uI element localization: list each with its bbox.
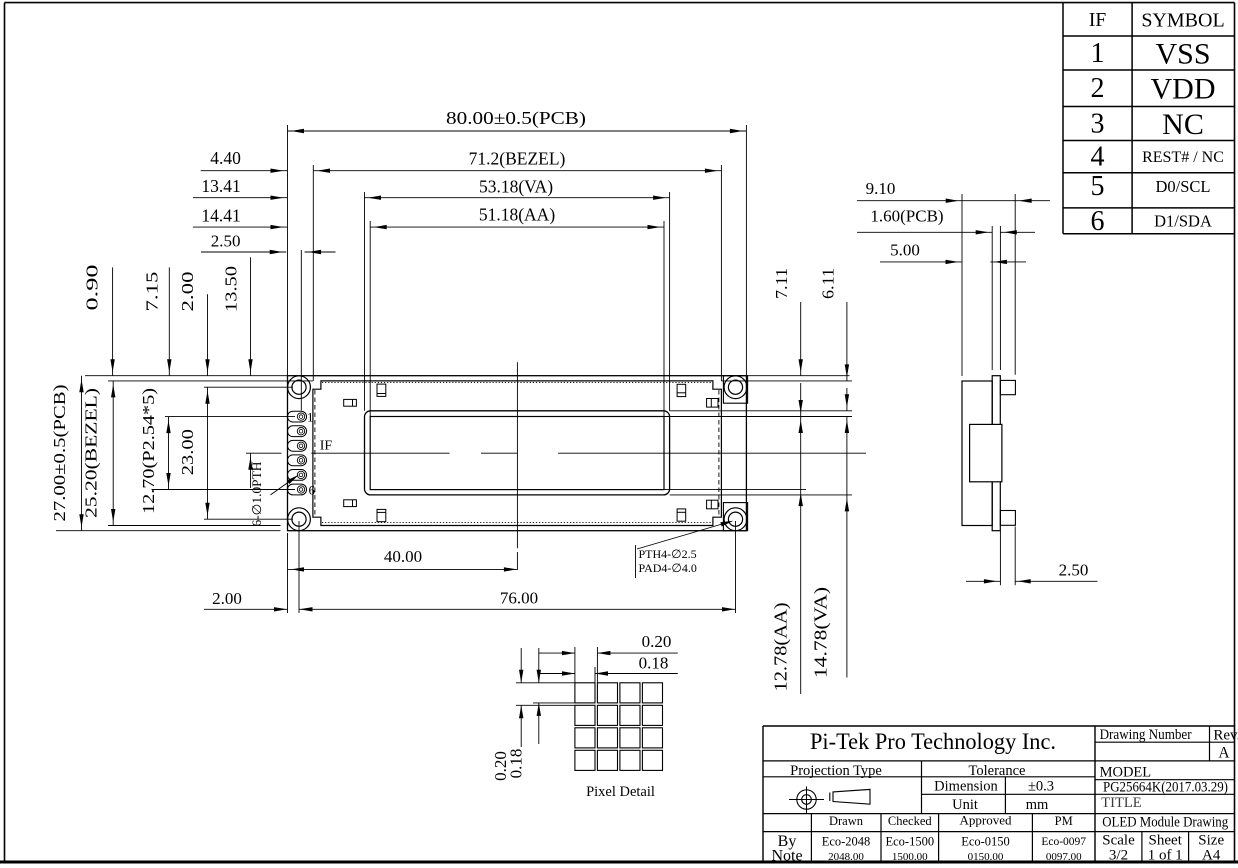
dim 51.18(AA): [370, 205, 664, 230]
tolerance value: [1028, 779, 1054, 795]
svg-text:Dimension: Dimension: [934, 779, 998, 795]
pin table header IF: [1089, 10, 1106, 31]
svg-text:2.00: 2.00: [178, 272, 197, 312]
svg-text:51.18(AA): 51.18(AA): [479, 205, 555, 225]
pin table row 6 D1/SDA: [1091, 206, 1212, 237]
label PM: [1055, 814, 1073, 828]
by Checked value: [885, 835, 934, 849]
label Scale: [1102, 833, 1135, 849]
pixel dim 0.18 horizontal: [539, 654, 678, 676]
pin table header SYMBOL: [1141, 10, 1224, 32]
dim 12.78(AA): [771, 383, 803, 694]
ext line PCB top left: [85, 375, 288, 377]
side ext line front top: [961, 194, 963, 376]
svg-text:12.78(AA): 12.78(AA): [771, 602, 791, 691]
svg-text:13.50: 13.50: [222, 266, 241, 312]
pin table row 2 VDD: [1091, 73, 1216, 106]
svg-text:PAD4-∅4.0: PAD4-∅4.0: [639, 561, 697, 575]
svg-text:2: 2: [1091, 73, 1105, 104]
svg-text:VDD: VDD: [1151, 73, 1216, 106]
pin table row 1 VSS: [1091, 38, 1211, 71]
dim 14.41: [193, 205, 287, 229]
ext line PCB top right: [746, 375, 849, 377]
model value: [1103, 780, 1228, 796]
VA outline (53.18x14.78): [365, 411, 670, 495]
component C8 (bottom-right): [707, 500, 718, 509]
ext line PCB left below: [287, 533, 289, 613]
size value: [1202, 848, 1221, 864]
ext line bezel top left: [108, 380, 313, 382]
dim 25.20(BEZEL): [81, 381, 115, 526]
ext line VA bottom right: [670, 494, 852, 496]
svg-text:14.78(VA): 14.78(VA): [811, 587, 831, 678]
svg-text:2.50: 2.50: [1059, 561, 1089, 580]
dim 71.2(BEZEL): [313, 149, 721, 173]
svg-text:MODEL: MODEL: [1100, 765, 1152, 781]
ext line pin1 row: [165, 416, 295, 418]
label Rev.: [1213, 728, 1238, 744]
pin table row 3 NC: [1091, 108, 1204, 141]
svg-text:Rev.: Rev.: [1213, 728, 1238, 744]
svg-text:14.41: 14.41: [201, 205, 240, 225]
dim 23.00: [178, 387, 210, 519]
pixel ext v2: [596, 647, 598, 683]
ext line AA top right: [664, 416, 852, 418]
label Drawn: [829, 814, 864, 828]
side view top standoff pad: [1000, 380, 1015, 394]
svg-text:Pixel Detail: Pixel Detail: [586, 784, 655, 800]
svg-text:53.18(VA): 53.18(VA): [479, 177, 553, 197]
svg-text:SYMBOL: SYMBOL: [1141, 10, 1224, 32]
svg-text:7.11: 7.11: [772, 268, 791, 299]
dim 7.11: [772, 268, 803, 376]
svg-text:6: 6: [308, 483, 315, 498]
pin table row 4 REST# / NC: [1091, 142, 1224, 173]
interface pins 1-6 (pads with 1.0 PTH): [288, 411, 307, 495]
note PTH4-2.5 PAD4-4.0 text: [639, 547, 697, 575]
mounting hole top-left (PTH 2.5 / PAD 4.0): [288, 376, 311, 399]
svg-text:1500.00: 1500.00: [892, 851, 928, 863]
component C2 (top-left vertical): [377, 384, 386, 396]
svg-text:A: A: [1218, 745, 1230, 762]
svg-text:PG25664K(2017.03.29): PG25664K(2017.03.29): [1103, 780, 1228, 796]
note PTH4/PAD4 leader: [636, 521, 734, 578]
svg-text:Sheet: Sheet: [1149, 833, 1183, 849]
sheet value: [1148, 848, 1183, 864]
svg-text:40.00: 40.00: [384, 547, 422, 566]
pixel ext v3: [594, 667, 596, 683]
svg-text:4: 4: [1091, 142, 1105, 173]
svg-text:Scale: Scale: [1102, 833, 1135, 849]
note Approved value: [968, 851, 1004, 863]
scale value: [1109, 848, 1128, 864]
note Checked value: [892, 851, 928, 863]
svg-text:76.00: 76.00: [500, 589, 538, 608]
dim 13.41: [193, 176, 287, 200]
label Note: [771, 848, 802, 865]
note 6-PTH leader: [271, 475, 299, 495]
pixel ext h3: [533, 702, 575, 704]
pixel ext h1: [516, 682, 575, 684]
dim 4.40: [201, 148, 287, 173]
dim 53.18(VA): [365, 177, 670, 200]
svg-text:6-∅1.0PTH: 6-∅1.0PTH: [250, 462, 264, 527]
dim 80.00±0.5(PCB): [288, 108, 747, 133]
svg-text:1.60(PCB): 1.60(PCB): [870, 207, 943, 226]
svg-text:Eco-1500: Eco-1500: [885, 835, 934, 849]
svg-text:1 of 1: 1 of 1: [1148, 848, 1183, 864]
ext line hole row bottom: [204, 518, 293, 520]
ext line PCB right vertical top: [745, 125, 747, 376]
svg-text:Checked: Checked: [888, 814, 932, 828]
svg-text:OLED Module Drawing: OLED Module Drawing: [1102, 815, 1228, 831]
svg-text:VSS: VSS: [1155, 38, 1210, 71]
svg-text:Eco-0097: Eco-0097: [1041, 836, 1086, 848]
dim 7.15: [142, 267, 171, 375]
company name: [810, 729, 1056, 755]
pin 1 label: [307, 410, 314, 425]
label Size: [1198, 833, 1224, 849]
svg-text:Size: Size: [1198, 833, 1224, 849]
svg-text:Unit: Unit: [952, 797, 978, 813]
svg-text:71.2(BEZEL): 71.2(BEZEL): [469, 149, 566, 169]
by Approved value: [961, 835, 1010, 849]
svg-text:D0/SCL: D0/SCL: [1155, 177, 1210, 196]
mounting hole bottom-right (PTH 2.5 / PAD 4.0): [724, 508, 747, 531]
svg-text:2048.00: 2048.00: [828, 851, 864, 863]
pin table row 5 D0/SCL: [1091, 171, 1211, 202]
dim 27.00±0.5(PCB): [50, 376, 84, 531]
svg-text:4.40: 4.40: [210, 148, 241, 168]
svg-text:Eco-0150: Eco-0150: [961, 835, 1010, 849]
title block grid: [763, 726, 1235, 862]
dim 12.70(P2.54*5): [139, 388, 171, 514]
ext line VA left vertical: [364, 192, 366, 411]
side ext line pcb front top: [991, 226, 993, 370]
svg-text:3/2: 3/2: [1109, 848, 1128, 864]
pixel dim 0.20 horizontal: [539, 632, 678, 655]
mounting hole top-right (PTH 2.5 / PAD 4.0): [724, 376, 747, 399]
side ext line pcb back bottom: [999, 531, 1001, 586]
mounting hole bottom-right pad square: [723, 503, 747, 531]
svg-text:D1/SDA: D1/SDA: [1154, 212, 1212, 231]
title value: [1102, 815, 1228, 831]
label Tolerance: [969, 763, 1026, 779]
svg-text:13.41: 13.41: [201, 176, 240, 196]
dim 0.90: [82, 265, 114, 376]
label Projection Type: [790, 763, 882, 779]
svg-text:1: 1: [307, 410, 314, 425]
label By: [778, 833, 797, 850]
PCB outline (front view): [288, 376, 747, 531]
svg-text:Note: Note: [771, 848, 802, 865]
component C1 (top-left): [344, 399, 357, 406]
note Drawn value: [828, 851, 864, 863]
dim 76.00: [299, 589, 736, 612]
dim 6.11: [819, 268, 850, 381]
pixel dim 0.18 vertical: [507, 648, 542, 778]
mounting hole bottom-left (PTH 2.5 / PAD 4.0): [288, 508, 311, 531]
by PM value: [1041, 836, 1086, 848]
ext line hole column below: [298, 521, 300, 613]
ext line hole right column below: [735, 521, 737, 613]
ext line AA bottom right: [664, 489, 806, 491]
note PM value: [1046, 851, 1082, 863]
svg-text:9.10: 9.10: [866, 179, 896, 198]
ext line bezel bottom: [108, 525, 281, 527]
svg-text:NC: NC: [1162, 108, 1204, 141]
component C3 (bottom-left): [344, 500, 357, 507]
component C5 (top-right vertical): [677, 384, 686, 396]
svg-text:Approved: Approved: [960, 813, 1012, 828]
svg-text:0.90: 0.90: [82, 265, 101, 311]
ext line pin6 row: [152, 489, 296, 491]
dim 1.60(PCB): [857, 207, 1035, 235]
svg-text:Projection Type: Projection Type: [790, 763, 882, 779]
pixel detail label: [586, 784, 655, 800]
vertical centerline: [516, 362, 518, 570]
svg-text:80.00±0.5(PCB): 80.00±0.5(PCB): [446, 108, 586, 128]
label TITLE: [1101, 795, 1141, 811]
pixel ext v1: [574, 647, 576, 683]
pin 6 label: [308, 483, 315, 498]
ext line PCB left vertical top: [287, 125, 289, 376]
label Dimension: [934, 779, 998, 795]
AA outline (51.18x12.78): [370, 417, 664, 490]
ext line bezel right vertical top: [720, 165, 722, 381]
side ext line tab back bottom: [1014, 527, 1016, 586]
by Drawn value: [822, 835, 871, 849]
ext line PCB bottom: [56, 530, 281, 532]
dim 2.50 (standoff): [966, 561, 1098, 584]
label Drawing Number: [1100, 727, 1192, 743]
dim 2.50 (pin to bezel): [201, 232, 336, 255]
ext line VA right vertical: [669, 192, 671, 411]
svg-text:Drawing Number: Drawing Number: [1100, 727, 1192, 743]
svg-text:0.18: 0.18: [639, 654, 669, 673]
pixel detail 4x4 grid: [575, 683, 663, 771]
svg-text:5.00: 5.00: [890, 241, 920, 260]
projection symbol circle: [789, 787, 824, 814]
svg-text:0097.00: 0097.00: [1046, 851, 1082, 863]
label Checked: [888, 814, 932, 828]
label Unit: [952, 797, 978, 813]
IF label: [320, 439, 333, 454]
svg-text:REST# / NC: REST# / NC: [1142, 149, 1224, 166]
svg-text:1: 1: [1091, 38, 1105, 69]
svg-text:IF: IF: [1089, 10, 1106, 31]
svg-text:mm: mm: [1026, 797, 1049, 813]
component C6 (top-right): [707, 399, 718, 408]
svg-text:Drawn: Drawn: [829, 814, 864, 828]
ext line bezel top right: [721, 380, 852, 382]
side view bottom standoff pad: [1000, 511, 1015, 526]
svg-text:TITLE: TITLE: [1101, 795, 1141, 811]
bezel inner dashed outline: [315, 383, 719, 523]
dim 2.00 (edge to hole): [204, 589, 288, 612]
pixel dim 0.20 vertical: [491, 648, 523, 781]
side view component (back side): [970, 424, 1002, 481]
component C7 (bottom-right vertical): [677, 509, 686, 521]
horizontal centerline (IF line): [246, 452, 866, 454]
svg-text:Tolerance: Tolerance: [969, 763, 1026, 779]
mounting hole top-right pad square: [723, 376, 747, 404]
svg-text:PTH4-∅2.5: PTH4-∅2.5: [639, 547, 697, 561]
dim 13.50: [222, 257, 253, 488]
side view bezel body: [962, 381, 992, 526]
bezel outline (front view): [313, 381, 722, 526]
svg-text:7.15: 7.15: [142, 272, 161, 312]
component C4 (bottom-left vertical): [377, 509, 386, 521]
svg-text:2.50: 2.50: [211, 232, 241, 251]
dim 14.78(VA): [811, 388, 850, 678]
svg-text:Pi-Tek Pro Technology Inc.: Pi-Tek Pro Technology Inc.: [810, 729, 1056, 755]
side view PCB strip: [992, 376, 1000, 531]
svg-text:27.00±0.5(PCB): 27.00±0.5(PCB): [50, 385, 69, 522]
svg-text:PM: PM: [1055, 814, 1073, 828]
dim 2.00 (pcb top to hole): [178, 272, 210, 376]
svg-text:6.11: 6.11: [819, 268, 838, 299]
ext line pin column vertical: [300, 250, 302, 411]
pin table grid: [1063, 3, 1235, 234]
svg-text:5: 5: [1091, 171, 1105, 202]
svg-text:A4: A4: [1202, 848, 1221, 864]
ext line bezel left vertical top: [312, 165, 314, 381]
ext line hole row top: [204, 386, 293, 388]
ext line AA right vertical: [663, 221, 665, 417]
svg-text:3: 3: [1091, 109, 1105, 140]
svg-text:0.20: 0.20: [642, 632, 672, 651]
dim 40.00: [288, 547, 518, 572]
svg-text:25.20(BEZEL): 25.20(BEZEL): [81, 388, 100, 518]
label Approved: [960, 813, 1012, 828]
svg-text:2.00: 2.00: [212, 589, 242, 608]
dim 5.00: [880, 241, 1026, 265]
svg-text:6: 6: [1091, 206, 1105, 237]
side ext line pcb back top: [999, 226, 1001, 370]
unit value mm: [1026, 797, 1049, 813]
dim 9.10: [857, 179, 1050, 203]
projection symbol cone: [830, 789, 870, 804]
svg-text:±0.3: ±0.3: [1028, 779, 1054, 795]
svg-text:IF: IF: [320, 439, 333, 454]
ext line VA top right: [670, 410, 852, 412]
note 6-1.0PTH text: [250, 462, 264, 527]
rev value A: [1218, 745, 1230, 762]
side ext line tab back top: [1014, 194, 1016, 375]
svg-text:12.70(P2.54*5): 12.70(P2.54*5): [139, 388, 158, 514]
svg-text:0.18: 0.18: [507, 749, 526, 779]
label MODEL: [1100, 765, 1152, 781]
svg-text:Eco-2048: Eco-2048: [822, 835, 871, 849]
pixel ext h2: [516, 704, 575, 706]
svg-text:0150.00: 0150.00: [968, 851, 1004, 863]
ext line AA left vertical: [369, 221, 371, 417]
label Sheet: [1149, 833, 1183, 849]
svg-text:23.00: 23.00: [178, 429, 197, 475]
